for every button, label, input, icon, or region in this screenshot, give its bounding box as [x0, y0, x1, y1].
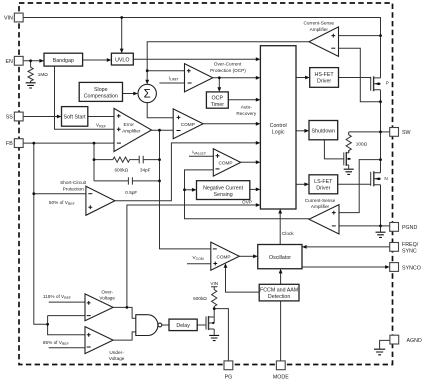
- svg-text:COMP: COMP: [218, 161, 232, 166]
- svg-text:Amplifier: Amplifier: [310, 27, 329, 32]
- svg-text:P: P: [386, 81, 389, 86]
- svg-text:Driver: Driver: [317, 79, 331, 85]
- svg-text:Delay: Delay: [176, 323, 190, 329]
- svg-text:SS: SS: [6, 115, 14, 121]
- svg-text:Recovery: Recovery: [236, 111, 256, 116]
- svg-text:Σ: Σ: [144, 89, 151, 101]
- svg-text:Auto-: Auto-: [241, 104, 253, 109]
- svg-text:MODE: MODE: [273, 375, 289, 380]
- svg-text:1MΩ: 1MΩ: [38, 72, 49, 77]
- svg-text:AGND: AGND: [407, 338, 422, 344]
- svg-text:0.5pF: 0.5pF: [125, 190, 137, 195]
- svg-text:VIN: VIN: [210, 281, 218, 286]
- svg-text:PGND: PGND: [402, 225, 417, 231]
- svg-text:SYNC: SYNC: [402, 248, 417, 254]
- svg-text:OVP: OVP: [242, 200, 252, 205]
- svg-text:Detection: Detection: [268, 294, 290, 300]
- svg-text:FCCM and AAM: FCCM and AAM: [260, 288, 298, 294]
- svg-text:Soft Start: Soft Start: [64, 115, 87, 121]
- svg-text:VIN: VIN: [4, 16, 13, 22]
- svg-text:Amplifier: Amplifier: [311, 204, 330, 209]
- svg-text:Error: Error: [123, 122, 134, 127]
- svg-text:Over-: Over-: [101, 289, 113, 294]
- svg-text:COMP: COMP: [216, 254, 230, 259]
- svg-text:Timer: Timer: [211, 102, 225, 108]
- svg-text:LS-FET: LS-FET: [314, 179, 333, 185]
- svg-text:Current-Sense: Current-Sense: [305, 198, 336, 203]
- svg-text:SYNCO: SYNCO: [402, 266, 421, 272]
- svg-text:OCP: OCP: [212, 96, 224, 102]
- svg-text:Protection: Protection: [63, 186, 84, 191]
- svg-text:Under-: Under-: [109, 350, 124, 355]
- svg-text:Current-Sense: Current-Sense: [304, 21, 335, 26]
- svg-text:Amplifier: Amplifier: [122, 129, 141, 134]
- svg-text:Over-Current: Over-Current: [214, 62, 242, 67]
- svg-text:Oscillator: Oscillator: [269, 255, 291, 261]
- svg-text:FB: FB: [6, 141, 13, 147]
- svg-text:FREQ/: FREQ/: [402, 242, 419, 248]
- svg-text:N: N: [384, 176, 387, 181]
- svg-text:Shutdown: Shutdown: [312, 128, 336, 134]
- svg-text:Slope: Slope: [94, 87, 108, 93]
- svg-text:Driver: Driver: [316, 186, 330, 192]
- svg-text:EN: EN: [5, 59, 13, 65]
- svg-text:PG: PG: [225, 375, 233, 380]
- svg-text:Voltage: Voltage: [99, 296, 115, 301]
- svg-text:Protection (OCP): Protection (OCP): [210, 68, 246, 73]
- svg-text:HS-FET: HS-FET: [315, 72, 335, 78]
- svg-text:COMP: COMP: [181, 122, 195, 127]
- svg-text:SW: SW: [402, 130, 411, 136]
- svg-text:Short-Circuit: Short-Circuit: [60, 180, 87, 185]
- svg-text:100Ω: 100Ω: [356, 142, 368, 147]
- svg-text:Clock: Clock: [282, 231, 294, 236]
- svg-text:600kΩ: 600kΩ: [114, 168, 128, 173]
- svg-text:Control: Control: [270, 123, 287, 129]
- svg-text:Sensing: Sensing: [214, 192, 233, 198]
- svg-text:UVLO: UVLO: [115, 57, 129, 63]
- svg-text:Compensation: Compensation: [84, 94, 118, 100]
- svg-text:34pF: 34pF: [140, 168, 151, 173]
- svg-text:Voltage: Voltage: [109, 356, 125, 361]
- svg-text:Negative Current: Negative Current: [203, 185, 244, 191]
- svg-text:500kΩ: 500kΩ: [193, 296, 207, 301]
- svg-text:Logic: Logic: [272, 130, 285, 136]
- svg-text:Bandgap: Bandgap: [53, 58, 74, 64]
